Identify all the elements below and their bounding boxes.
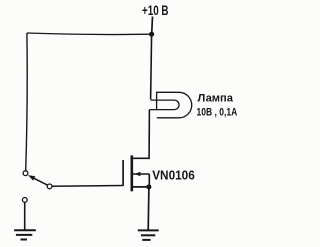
- transistor Q1 channel bar: [131, 155, 134, 191]
- wire top rail: [27, 33, 152, 35]
- switch S1 top contact: [23, 171, 28, 176]
- transistor Q1 body arrow: [135, 172, 141, 176]
- wire left rail: [26, 33, 28, 171]
- wire switch pole to gate: [52, 185, 123, 188]
- transistor Q1 gate bar: [122, 160, 124, 186]
- wire lamp to drain: [133, 110, 150, 159]
- wire from +10V node down to lamp: [151, 34, 152, 99]
- ground left bar 2: [16, 234, 32, 236]
- lamp HL1 filament: [149, 100, 179, 110]
- ground left bar 1: [14, 229, 36, 231]
- ground right bar 2: [141, 234, 155, 236]
- switch S1 bottom contact: [22, 198, 27, 203]
- junction dot at +10V node: [149, 32, 154, 37]
- ground right bar 3: [142, 239, 150, 241]
- switch S1 pole contact: [47, 184, 52, 189]
- lamp HL1 envelope: [157, 92, 192, 118]
- transistor Q1 body-source vertical: [148, 174, 150, 187]
- svg-text:Лампа: Лампа: [198, 93, 234, 105]
- wire source down: [147, 187, 150, 231]
- ground right bar 1: [138, 229, 159, 231]
- switch S1 lever: [33, 178, 47, 185]
- transistor Q1 source lead: [132, 186, 149, 188]
- svg-text:VN0106: VN0106: [152, 168, 195, 183]
- ground left bar 3: [21, 239, 28, 241]
- svg-text:+10 В: +10 В: [142, 3, 169, 18]
- svg-text:10В , 0,1А: 10В , 0,1А: [197, 106, 238, 118]
- junction dot source-body: [146, 184, 151, 189]
- wire +10V stub: [151, 17, 154, 35]
- switch S1 lever arrowhead: [28, 175, 35, 181]
- wire bottom contact to ground: [24, 202, 26, 230]
- transistor Q1 body lead: [133, 173, 149, 175]
